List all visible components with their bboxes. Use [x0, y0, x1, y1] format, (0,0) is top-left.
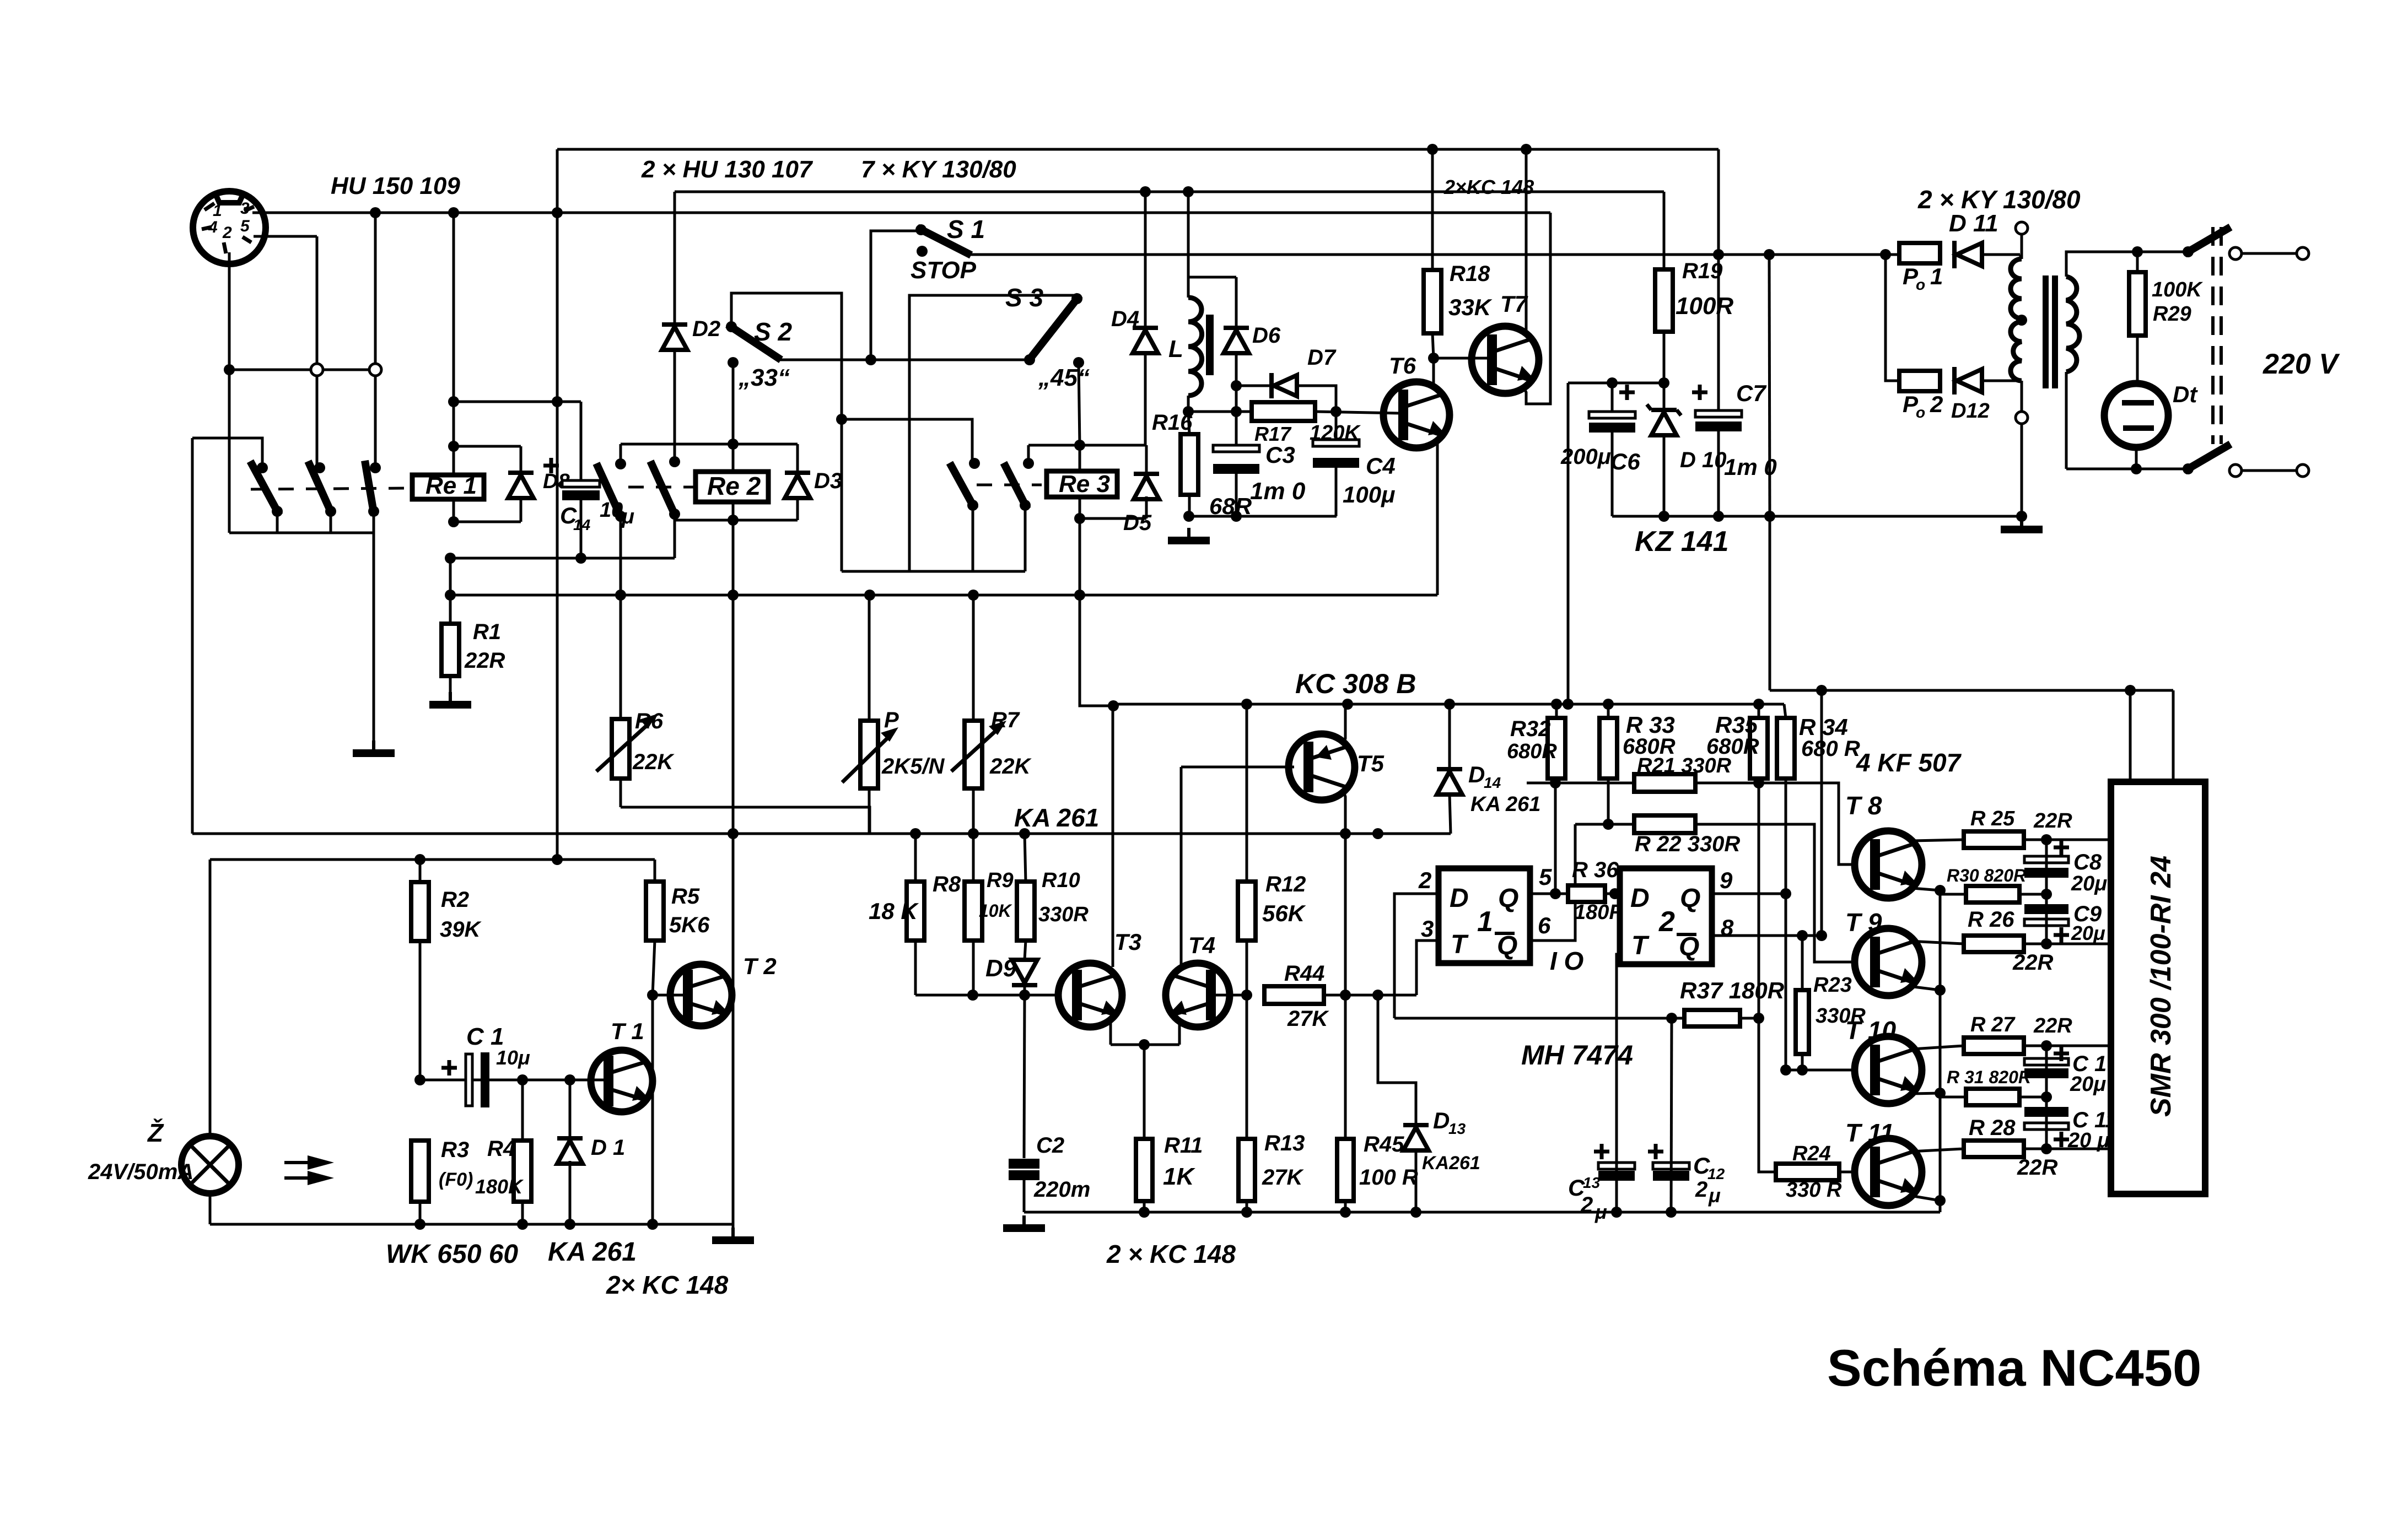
flip-flop 1 (MH7474) [1439, 868, 1530, 963]
wire D8 loop [454, 445, 521, 448]
svg-text:330R: 330R [1038, 903, 1089, 926]
wire pin5 [254, 235, 317, 238]
wire left vertical x349 [191, 438, 194, 834]
svg-text:R24: R24 [1792, 1142, 1831, 1165]
resistor R25 [1964, 831, 2024, 848]
resistor R11 [1143, 1045, 1146, 1139]
transistor T6 [1383, 382, 1450, 448]
svg-text:R18: R18 [1450, 262, 1490, 286]
resistor R28 [1964, 1141, 2024, 1157]
fuse Po2 branch [1886, 255, 1899, 381]
wire Re2 pole feed [619, 444, 622, 464]
switch pole C [370, 462, 381, 473]
diode D8 [520, 446, 522, 522]
svg-text:2 × HU 130 107: 2 × HU 130 107 [641, 156, 814, 183]
wire secondary bottom y851 [2066, 468, 2188, 471]
diode D3 [796, 444, 799, 520]
wire T5 to R44 column [1344, 834, 1347, 995]
ground R16 [1187, 528, 1190, 537]
wire T4 base [1211, 994, 1247, 997]
svg-text:R13: R13 [1264, 1131, 1305, 1155]
wire L-D6 top link [1188, 276, 1236, 279]
wire C1 node y1960 [420, 1079, 601, 1082]
svg-text:KZ 141: KZ 141 [1635, 526, 1729, 558]
wire KA261 rail [192, 833, 1451, 835]
switch pole Re3-b [1023, 458, 1034, 469]
wire T11 collector [1910, 1149, 1964, 1152]
svg-text:Ž: Ž [147, 1118, 164, 1147]
wire FF2 Q pin9 [1712, 893, 1786, 895]
capacitor C6 [1611, 383, 1614, 411]
wire R37 right [1740, 1017, 1759, 1020]
svg-text:R2: R2 [441, 888, 469, 912]
wire T6 emitter [1436, 440, 1439, 595]
diode D1 [569, 1080, 572, 1138]
wire bottom rail y2222 [210, 1223, 733, 1226]
svg-text:T 2: T 2 [743, 953, 777, 979]
svg-text:100μ: 100μ [1343, 482, 1395, 507]
svg-text:KA 261: KA 261 [1014, 803, 1099, 832]
svg-text:D: D [1630, 884, 1650, 913]
wire y1080 line [450, 594, 1437, 597]
wire R35 column down [1758, 783, 1760, 1018]
potentiometer P [868, 595, 871, 721]
svg-text:C3: C3 [1265, 442, 1295, 468]
svg-text:T3: T3 [1114, 929, 1141, 955]
svg-text:SMR 300 /100-RI 24: SMR 300 /100-RI 24 [2145, 856, 2177, 1117]
svg-text:5K6: 5K6 [669, 913, 710, 937]
wire T6 collector [1432, 358, 1435, 389]
wire T9 collector [1909, 941, 1964, 944]
ground x678 [372, 741, 375, 749]
svg-text:20μ: 20μ [2071, 872, 2107, 895]
resistor R45 [1344, 995, 1347, 1139]
switch pole A [257, 462, 268, 473]
svg-text:STOP: STOP [911, 257, 977, 284]
svg-text:D: D [1468, 761, 1485, 787]
wire y937 line [1189, 515, 1337, 518]
resistor R4 [521, 1080, 524, 1141]
svg-text:C6: C6 [1610, 448, 1640, 474]
svg-text:27K: 27K [1262, 1165, 1304, 1190]
cap stack upper vertical [2045, 840, 2048, 944]
fuse Po2 [1899, 371, 1940, 391]
svg-text:14: 14 [1484, 774, 1501, 791]
svg-text:S 1: S 1 [947, 215, 985, 244]
svg-text:WK 650 60: WK 650 60 [386, 1240, 518, 1269]
svg-text:Dt: Dt [2173, 381, 2198, 407]
relay Re2 [696, 472, 768, 502]
capacitor C13 [1598, 1163, 1635, 1169]
diode D11 [1952, 241, 1957, 268]
svg-text:R45: R45 [1364, 1132, 1404, 1156]
svg-text:T 1: T 1 [611, 1018, 644, 1044]
wire SMR feed verticals [2129, 690, 2132, 782]
switch pole Re3-a [969, 458, 980, 469]
emitter bus x3520 [1939, 890, 1942, 1212]
wire FF1 D loop [1394, 894, 1439, 1018]
svg-text:Re 1: Re 1 [425, 472, 477, 499]
resistor R21 [1634, 774, 1695, 792]
wire T5 collector down [1344, 791, 1345, 834]
svg-text:KC 308 B: KC 308 B [1295, 668, 1416, 699]
svg-text:T 10: T 10 [1845, 1016, 1896, 1045]
wire mid bottom rail y2200 [1024, 1211, 1940, 1214]
svg-text:D9: D9 [985, 955, 1017, 982]
wire T4 collector [1180, 767, 1183, 968]
wire T2 base [653, 994, 688, 997]
transformer primary terminal bottom [2021, 381, 2023, 412]
capacitor C1 [466, 1054, 472, 1106]
mains switch top [2183, 246, 2194, 257]
svg-text:HU 150 109: HU 150 109 [331, 172, 460, 199]
wire T8 emitter [1913, 888, 1940, 890]
wire T8 collector [1913, 840, 1964, 841]
wire Re3 feed y761 [842, 419, 972, 463]
resistor R12 [1246, 704, 1248, 882]
switch S2 [726, 321, 737, 332]
svg-text:10K: 10K [979, 901, 1013, 921]
wire FF2 T down [1617, 954, 1620, 1212]
svg-text:P: P [884, 708, 899, 732]
resistor R36 [1568, 885, 1605, 902]
wire pin3 [252, 212, 375, 214]
wire Re2 loop bottom y944 [675, 519, 798, 522]
capacitor C2 [1024, 995, 1025, 1158]
wire x1011 column [556, 149, 559, 860]
wire y747 line [1188, 410, 1252, 413]
resistor R37 [1684, 1010, 1740, 1026]
capacitor C4 [1335, 412, 1338, 439]
wire bottom rail y967 [229, 532, 374, 534]
svg-text:R 33: R 33 [1626, 712, 1675, 738]
switch pole Re2-b [669, 456, 680, 467]
separator dashed [2211, 227, 2215, 444]
wire x1184 column [651, 995, 654, 1224]
svg-text:Q: Q [1497, 931, 1517, 960]
R6 arrow [596, 726, 646, 771]
wire Re3 loop bottom y941 [1080, 517, 1146, 520]
mains terminals top [2229, 247, 2242, 260]
resistor R7 [972, 595, 975, 721]
diode D7 [1236, 385, 1274, 387]
svg-text:C2: C2 [1036, 1133, 1064, 1158]
capacitor C12 [1653, 1163, 1689, 1169]
wire FF2 Qbar pin8 [1712, 934, 1822, 937]
wire R25 node [2024, 839, 2111, 841]
wire FF1 Q to R36 [1530, 893, 1568, 895]
resistor R31 [1966, 1089, 2019, 1105]
svg-text:o: o [1916, 276, 1925, 293]
wire T7 base [1434, 357, 1488, 360]
wire T3 collector [1112, 706, 1114, 967]
switch pole B [314, 462, 325, 473]
svg-text:Q: Q [1679, 932, 1699, 961]
resistor R33 [1599, 718, 1617, 779]
svg-text:10: 10 [600, 499, 623, 522]
wire D line y1848 [1394, 1017, 1684, 1020]
wire R44 out [1324, 994, 1416, 997]
svg-text:2 × KY 130/80: 2 × KY 130/80 [1917, 185, 2081, 214]
transistor T8 [1855, 831, 1922, 898]
wire Dt bottom [2135, 447, 2138, 469]
svg-text:680R: 680R [1507, 740, 1557, 763]
wire pin5 riser [1554, 783, 1557, 894]
svg-text:2K5/N: 2K5/N [881, 754, 945, 779]
wire R24 to T11 [1839, 1171, 1854, 1174]
wire D13 zigzag [1378, 995, 1416, 1125]
svg-text:56K: 56K [1262, 900, 1306, 926]
capacitor C8 [2024, 856, 2068, 863]
resistor R35 [1750, 718, 1768, 779]
wire poles to y967 [276, 511, 279, 533]
svg-text:R 26: R 26 [1968, 907, 2014, 932]
svg-text:12: 12 [1707, 1165, 1725, 1182]
resistor R19 [1663, 192, 1666, 269]
wire T11 emitter [1910, 1196, 1940, 1201]
svg-text:10μ: 10μ [496, 1046, 530, 1069]
resistor R23 [1801, 936, 1804, 990]
svg-text:S 2: S 2 [754, 317, 792, 346]
transformer core [2043, 275, 2049, 388]
diode D14 [1448, 704, 1451, 769]
resistor R24 [1776, 1164, 1839, 1180]
resistor R22 [1634, 815, 1695, 833]
svg-text:D: D [1450, 884, 1469, 913]
wire pin6 riser [1530, 824, 1575, 941]
svg-text:μ: μ [1708, 1184, 1721, 1207]
svg-text:7 × KY 130/80: 7 × KY 130/80 [861, 156, 1016, 183]
diode D9 [1012, 960, 1037, 983]
wire switch feed y795 [192, 438, 262, 468]
wire switch verticals [316, 376, 319, 468]
wire R30 node [2019, 893, 2046, 896]
svg-text:T: T [1631, 931, 1650, 960]
flip-flop 2 (MH7474) [1620, 868, 1712, 964]
wire x2845 column [1567, 383, 1570, 704]
svg-text:100 R: 100 R [1359, 1165, 1418, 1190]
wire column x678 to ground [373, 533, 375, 742]
resistor R16 [1188, 412, 1189, 434]
svg-text:T6: T6 [1389, 353, 1416, 379]
svg-text:22K: 22K [632, 750, 675, 774]
svg-text:Schéma NC450: Schéma NC450 [1827, 1339, 2201, 1397]
wire x3305 [1820, 690, 1823, 936]
wire T9 emitter [1909, 986, 1940, 990]
wire Re1 top feed [452, 213, 455, 475]
svg-text:R1: R1 [473, 620, 501, 644]
wire KZ bottom y937 [1612, 515, 2022, 518]
svg-text:D 11: D 11 [1949, 210, 1998, 237]
svg-text:2: 2 [1658, 906, 1675, 938]
capacitor C7 [1717, 149, 1720, 410]
wire block top rail y1560 [210, 858, 655, 861]
wire KC308B bus y1278 [1113, 703, 1784, 706]
wire R31 node [2019, 1096, 2046, 1099]
wire D11 to transformer [1982, 253, 2020, 256]
DIN connector HU 150 109 [193, 191, 266, 264]
svg-text:R30 820R: R30 820R [1947, 866, 2026, 885]
svg-text:T7: T7 [1500, 291, 1528, 317]
wire R22 to T9 [1695, 824, 1856, 962]
wire S2 box top [731, 293, 842, 571]
wire Re1 coil bottom [452, 499, 455, 522]
ground R1 [449, 692, 452, 701]
relay Re3 [1047, 471, 1117, 497]
svg-text:Re 2: Re 2 [707, 472, 761, 500]
wire S1 output y462 [967, 253, 1899, 256]
mains switch bottom [2183, 463, 2194, 474]
svg-text:R12: R12 [1265, 872, 1306, 896]
transformer primary terminal top [2016, 222, 2028, 234]
svg-text:„45“: „45“ [1038, 364, 1090, 391]
svg-text:100K: 100K [2152, 278, 2203, 301]
transistor T11 [1855, 1138, 1922, 1206]
resistor R30 [1966, 886, 2019, 902]
wire T5 emitter up [1344, 704, 1345, 744]
resistor R13 [1246, 995, 1248, 1139]
wire T3 emitter [1109, 1021, 1112, 1045]
wire R36 to FF2 [1605, 893, 1620, 895]
svg-text:KA261: KA261 [1422, 1153, 1480, 1174]
svg-text:22R: 22R [2012, 950, 2053, 975]
resistor R27 [1964, 1037, 2024, 1054]
svg-text:22R: 22R [2017, 1155, 2057, 1180]
svg-text:R19: R19 [1682, 259, 1723, 283]
wire T10 base line [1786, 1069, 1856, 1072]
light arrows [284, 1161, 320, 1164]
mains terminals bottom [2229, 464, 2242, 477]
wire R26 node [2024, 943, 2111, 945]
svg-text:1K: 1K [1163, 1163, 1195, 1190]
wire Re3 loop top y808 [1028, 444, 1146, 447]
svg-text:2: 2 [1695, 1177, 1707, 1202]
wire S2 wiper y653 [777, 359, 1026, 361]
diode D13 [1403, 1123, 1429, 1127]
svg-text:C8: C8 [2073, 850, 2102, 874]
resistor R8 [914, 834, 917, 882]
svg-text:S 3: S 3 [1005, 283, 1043, 312]
core bar [1206, 315, 1214, 375]
wire emitter line y1896 [1111, 1044, 1179, 1046]
diode D12 [1952, 367, 1957, 394]
svg-text:D7: D7 [1307, 345, 1337, 370]
diode D2 [674, 192, 676, 462]
wire T1 base [601, 1079, 608, 1082]
wire secondary rail [2066, 252, 2188, 277]
wire R21 to T8 [1695, 783, 1856, 864]
wire R31 line [1940, 1096, 1966, 1099]
svg-text:R11: R11 [1164, 1133, 1203, 1158]
svg-text:180K: 180K [475, 1175, 524, 1198]
svg-text:R 22 330R: R 22 330R [1635, 832, 1740, 856]
svg-text:R35: R35 [1715, 712, 1758, 738]
resistor R29 [2136, 252, 2139, 272]
svg-text:33K: 33K [1448, 294, 1493, 320]
svg-text:R4: R4 [487, 1137, 515, 1161]
svg-text:μ: μ [621, 505, 634, 528]
wire Re2 coil column [732, 363, 735, 472]
wire S3 box top [909, 295, 1077, 571]
svg-text:2: 2 [1930, 391, 1943, 417]
R7 arrow [951, 726, 1001, 771]
wire T7 emitter loop [1523, 213, 1550, 404]
svg-text:330 R: 330 R [1786, 1179, 1842, 1202]
svg-text:5: 5 [240, 217, 250, 235]
transistor T3 [1058, 963, 1122, 1027]
svg-text:D5: D5 [1123, 511, 1152, 535]
bus y271 [557, 148, 1719, 151]
resistor R17 [1252, 402, 1315, 421]
svg-text:14: 14 [573, 516, 591, 533]
svg-text:D12: D12 [1951, 399, 1990, 423]
svg-text:T 9: T 9 [1845, 908, 1882, 937]
resistor R3 [411, 1141, 429, 1202]
dashed wiper Re1 [251, 488, 408, 489]
svg-text:22R: 22R [2033, 1014, 2072, 1037]
diode D4 [1144, 192, 1147, 445]
wire y1013 line [450, 557, 675, 560]
svg-text:R 28: R 28 [1969, 1116, 2016, 1140]
dashed wiper Re3 [977, 484, 1042, 487]
wire Re2 loop top y806 [621, 443, 798, 446]
svg-text:R3: R3 [441, 1138, 469, 1162]
svg-text:R8: R8 [933, 872, 961, 896]
capacitor C3 [1235, 412, 1238, 444]
svg-text:220 V: 220 V [2262, 348, 2340, 380]
svg-text:D2: D2 [692, 317, 720, 341]
svg-text:24V/50mA: 24V/50mA [88, 1160, 193, 1184]
svg-text:T 11: T 11 [1845, 1118, 1894, 1147]
svg-text:18 K: 18 K [869, 898, 919, 924]
wire Re1 y729 link [454, 401, 581, 403]
SMR block [2111, 782, 2205, 1194]
svg-text:I O: I O [1550, 947, 1584, 975]
svg-text:L: L [1168, 336, 1183, 363]
svg-text:D: D [1433, 1107, 1450, 1133]
svg-text:R44: R44 [1284, 961, 1324, 986]
wire T4 emitter [1178, 1021, 1181, 1045]
svg-text:KA 261: KA 261 [548, 1237, 637, 1267]
wire T10 collector [1913, 1046, 1964, 1049]
wire 45 contact to pole [1027, 445, 1030, 463]
svg-text:2: 2 [222, 224, 232, 242]
wire R21 line [1527, 782, 1634, 785]
wire T7 collector [1525, 149, 1528, 333]
resistor R10 [1025, 834, 1026, 882]
lamp Z [181, 1136, 239, 1193]
wire terminal row y671 [229, 369, 375, 371]
resistor R26 [1964, 936, 2024, 952]
lamp Dt [2104, 383, 2168, 447]
svg-text:20μ: 20μ [2070, 1073, 2106, 1096]
svg-text:4 KF 507: 4 KF 507 [1856, 748, 1962, 777]
wire x3240 column [1785, 779, 1787, 1070]
capacitor C14 [580, 402, 583, 479]
wire pin2 [228, 252, 231, 370]
svg-text:39K: 39K [440, 917, 482, 942]
fuse Po1 [1899, 243, 1940, 263]
wire R22 line [1575, 823, 1634, 826]
svg-text:3: 3 [1421, 916, 1434, 942]
transistor T9 [1855, 928, 1922, 996]
svg-text:1m 0: 1m 0 [1250, 478, 1306, 505]
svg-text:27K: 27K [1287, 1007, 1329, 1031]
wire Re3 coil column [1079, 363, 1080, 445]
svg-text:„33“: „33“ [738, 364, 790, 391]
svg-text:R7: R7 [991, 708, 1020, 732]
cap stack lower vertical [2045, 1046, 2048, 1149]
